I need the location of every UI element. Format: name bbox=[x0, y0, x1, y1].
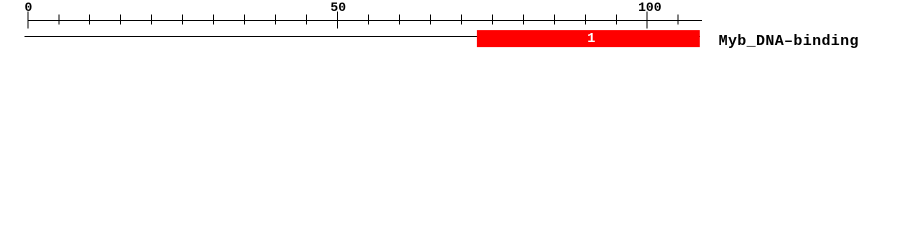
minor tick 60 bbox=[399, 15, 400, 25]
major tick 0 bbox=[27, 12, 28, 29]
minor tick 25 bbox=[182, 15, 183, 25]
ruler axis line bbox=[28, 20, 703, 21]
minor tick 65 bbox=[430, 15, 431, 25]
minor tick 40 bbox=[275, 15, 276, 25]
minor tick 10 bbox=[89, 15, 90, 25]
domain box Myb_DNA-binding bbox=[477, 30, 700, 47]
minor tick 30 bbox=[213, 15, 214, 25]
svg-text:0: 0 bbox=[24, 0, 32, 15]
minor tick 90 bbox=[585, 15, 586, 25]
minor tick 15 bbox=[120, 15, 121, 25]
minor tick 80 bbox=[523, 15, 524, 25]
svg-text:50: 50 bbox=[330, 0, 346, 15]
minor tick 75 bbox=[492, 15, 493, 25]
major tick 100 bbox=[647, 12, 648, 29]
minor tick 35 bbox=[244, 15, 245, 25]
minor tick 5 bbox=[58, 15, 59, 25]
minor tick 70 bbox=[461, 15, 462, 25]
minor tick 95 bbox=[616, 15, 617, 25]
minor tick 105 bbox=[678, 15, 679, 25]
minor tick 85 bbox=[554, 15, 555, 25]
minor tick 45 bbox=[306, 15, 307, 25]
svg-text:Myb_DNA–binding: Myb_DNA–binding bbox=[719, 33, 859, 50]
svg-text:1: 1 bbox=[587, 32, 595, 47]
svg-text:100: 100 bbox=[638, 0, 662, 15]
minor tick 20 bbox=[151, 15, 152, 25]
major tick 50 bbox=[337, 12, 338, 29]
protein backbone line bbox=[24, 36, 700, 37]
minor tick 55 bbox=[368, 15, 369, 25]
